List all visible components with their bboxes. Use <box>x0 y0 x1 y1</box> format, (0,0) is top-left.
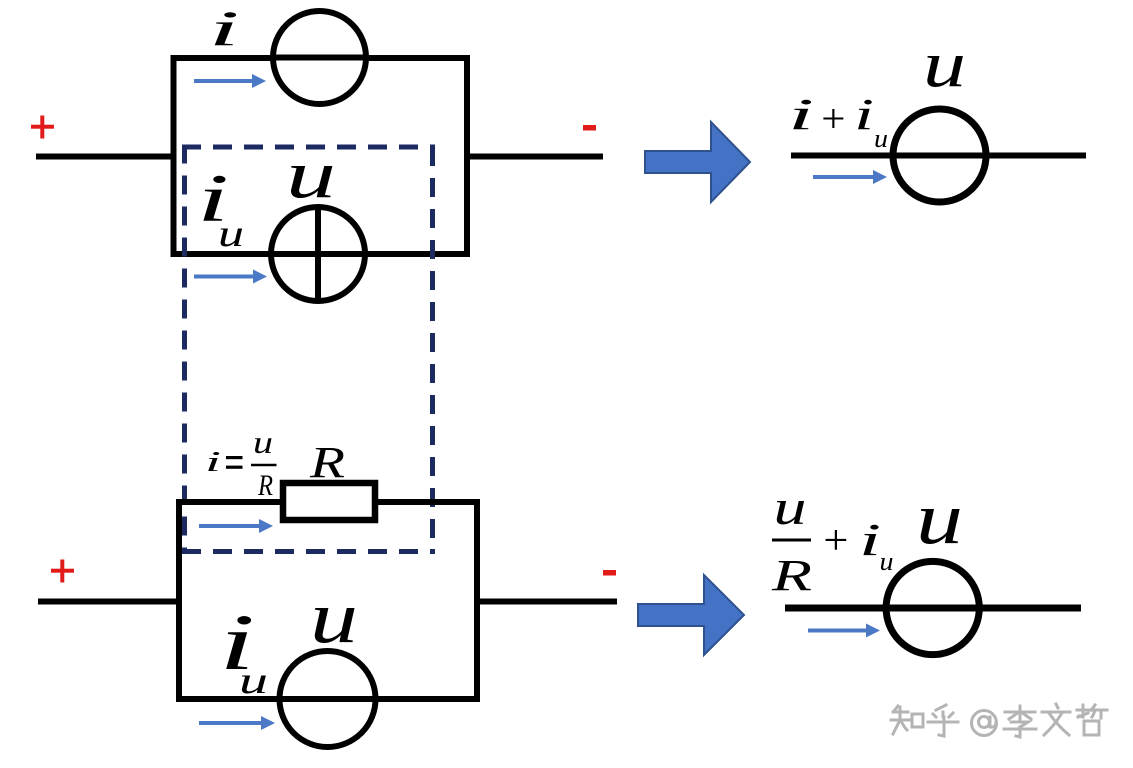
svg-text:i: i <box>859 514 881 565</box>
svg-text:i: i <box>788 90 814 139</box>
svg-text:u: u <box>218 213 244 255</box>
svg-text:u: u <box>916 478 963 560</box>
svg-text:i: i <box>209 0 240 56</box>
svg-text:u: u <box>774 479 807 535</box>
svg-text:R: R <box>771 551 813 600</box>
svg-text:u: u <box>239 660 268 702</box>
svg-text:u: u <box>310 577 358 659</box>
svg-text:+: + <box>819 96 848 141</box>
svg-text:i: i <box>205 446 221 478</box>
svg-text:i: i <box>854 90 874 139</box>
svg-text:u: u <box>874 124 888 153</box>
svg-text:u: u <box>923 28 966 101</box>
svg-text:u: u <box>880 547 894 576</box>
svg-text:R: R <box>309 438 345 487</box>
svg-text:+: + <box>821 518 851 564</box>
svg-text:u: u <box>253 424 273 460</box>
svg-text:R: R <box>257 469 273 502</box>
